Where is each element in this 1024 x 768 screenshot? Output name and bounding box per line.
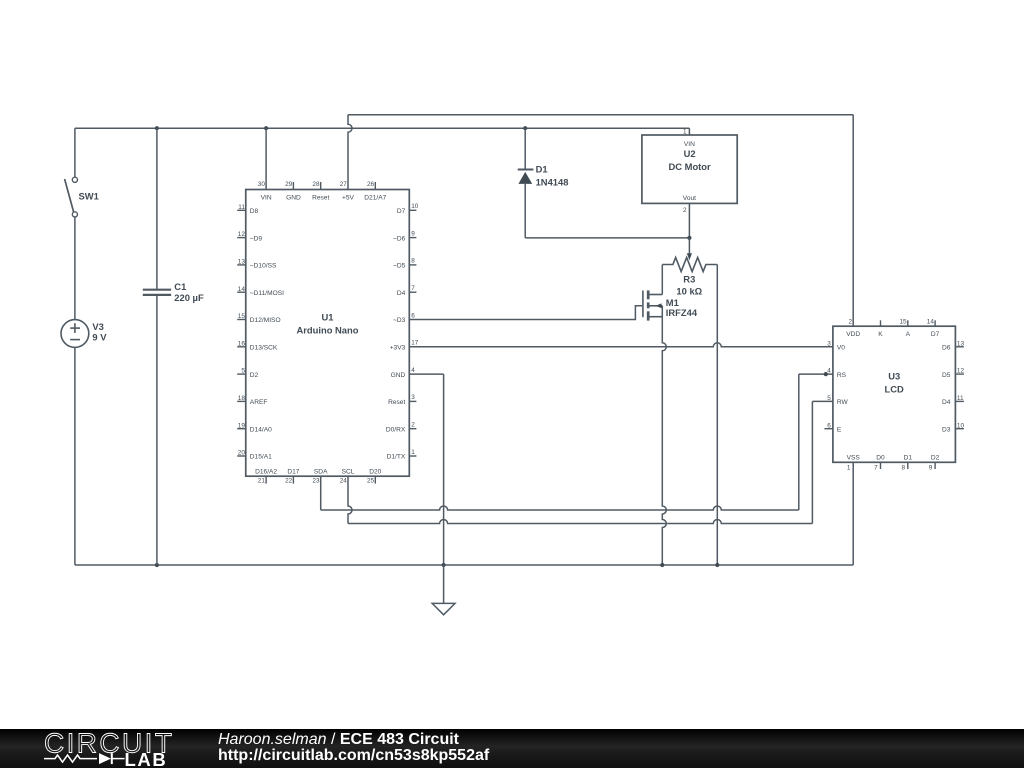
wire: U1 VIN pin 30 up to top rail: [265, 128, 267, 189]
pin 11 D8 of U1: [237, 204, 258, 215]
wire: C1 bottom lead: [156, 295, 158, 565]
pin 18 AREF of U1: [237, 395, 267, 406]
pin 14 D7 of U3: [927, 318, 940, 338]
svg-text:D6: D6: [942, 345, 951, 352]
svg-text:~D10/SS: ~D10/SS: [250, 263, 277, 270]
svg-text:D0: D0: [876, 454, 885, 461]
svg-text:D2: D2: [931, 454, 940, 461]
svg-text:D5: D5: [942, 372, 951, 379]
svg-text:GND: GND: [286, 195, 301, 202]
pin 10 D7 of U1: [397, 203, 419, 215]
svg-text:E: E: [837, 426, 842, 433]
wire: ground rail y=564.6: [75, 564, 853, 566]
svg-text:22: 22: [285, 478, 293, 485]
svg-text:D1/TX: D1/TX: [387, 454, 406, 461]
wire: U1 GND drop to ground rail: [443, 374, 445, 565]
svg-text:DC Motor: DC Motor: [669, 161, 712, 172]
pin 28 Reset of U1: [312, 181, 329, 201]
pin 1 VSS of U3: [847, 454, 861, 471]
wire: U1 GND pin 4 to drop: [409, 373, 443, 375]
svg-text:D14/A0: D14/A0: [250, 426, 272, 433]
pin 20 D15/A1 of U1: [237, 450, 272, 461]
svg-text:D7: D7: [397, 208, 406, 215]
svg-text:D4: D4: [942, 399, 951, 406]
svg-text:D13/SCK: D13/SCK: [250, 345, 278, 352]
svg-text:10 kΩ: 10 kΩ: [676, 285, 702, 296]
svg-text:30: 30: [258, 181, 266, 188]
pin 14 ~D11/MOSI of U1: [237, 286, 284, 297]
svg-text:GND: GND: [391, 372, 406, 379]
svg-text:~D6: ~D6: [393, 235, 406, 242]
svg-text:6: 6: [411, 312, 415, 319]
wire: top rail y=128: [75, 127, 690, 129]
svg-text:D20: D20: [369, 469, 381, 476]
pin 22 D17 of U1: [285, 469, 300, 485]
label SW1: [79, 191, 99, 202]
wire: left branch V3 minus down to ground rail: [74, 347, 76, 565]
svg-text:D15/A1: D15/A1: [250, 454, 272, 461]
svg-text:LAB: LAB: [125, 749, 168, 768]
wire: RS riser to LCD pin 4: [798, 374, 800, 510]
diode D1: [518, 170, 534, 184]
svg-text:IRFZ44: IRFZ44: [666, 307, 698, 318]
svg-text:27: 27: [340, 181, 348, 188]
svg-text:13: 13: [957, 340, 965, 347]
pin 10 D3 of U3: [942, 422, 964, 433]
pin 12 D5 of U3: [942, 368, 964, 379]
wire: SCL drop from U1 pin 24 with hop over SDA: [348, 476, 352, 523]
pin 12 ~D9 of U1: [237, 231, 262, 242]
svg-text:VIN: VIN: [261, 195, 272, 202]
svg-text:U3: U3: [888, 371, 900, 382]
svg-text:D0/RX: D0/RX: [386, 426, 406, 433]
pin 25 D20 of U1: [367, 469, 382, 485]
svg-text:R3: R3: [683, 274, 695, 285]
svg-text:15: 15: [238, 313, 246, 320]
pin 9 D2 of U3: [929, 454, 940, 471]
node: junction top rail / D1: [523, 126, 527, 130]
wire: SDA drop from U1 pin 23: [320, 476, 322, 510]
pin 6 ~D3 of U1: [393, 312, 415, 324]
label R3 value: [676, 274, 702, 297]
svg-text:2: 2: [411, 422, 415, 429]
svg-text:12: 12: [957, 368, 965, 375]
wire: SCL horizontal y=523.5 with hops: [348, 520, 812, 524]
transistor M1: [643, 290, 662, 320]
svg-text:SCL: SCL: [342, 469, 355, 476]
svg-text:C1: C1: [174, 281, 186, 292]
pin 8 D1 of U3: [901, 454, 912, 471]
svg-text:220 µF: 220 µF: [174, 292, 204, 303]
svg-text:LCD: LCD: [885, 384, 904, 395]
svg-text:28: 28: [312, 181, 320, 188]
svg-text:D8: D8: [250, 208, 259, 215]
svg-text:SDA: SDA: [314, 469, 328, 476]
pin 19 D14/A0 of U1: [237, 422, 272, 433]
svg-text:D3: D3: [942, 426, 951, 433]
wire: +3V3 to LCD V0 (y=346.8) with hop at R3 drop: [409, 343, 833, 347]
svg-text:D12/MISO: D12/MISO: [250, 317, 281, 324]
wire: D1 anode down: [524, 184, 526, 238]
pin 3 V0 of U3: [827, 340, 845, 351]
wire: RS horizontal into LCD: [799, 373, 833, 375]
wire: motor Vout pin 2 drop: [688, 203, 690, 237]
svg-text:V3: V3: [92, 321, 103, 332]
wire: SW1 to V3 (left branch middle): [74, 217, 76, 320]
wire: RW horizontal into LCD: [812, 400, 833, 402]
svg-text:5: 5: [827, 395, 831, 402]
IC U1 Arduino Nano box: [246, 190, 410, 477]
svg-text:7: 7: [411, 285, 415, 292]
pin 2 VDD of U3: [846, 318, 860, 338]
svg-text:24: 24: [340, 478, 348, 485]
wire: corner into DC motor VIN pin 1: [688, 128, 690, 135]
svg-text:RS: RS: [837, 372, 847, 379]
svg-text:A: A: [906, 331, 911, 338]
LCD U3 box: [833, 326, 956, 462]
svg-text:4: 4: [827, 368, 831, 375]
pin 6 E of U3: [824, 422, 842, 433]
wire: MOSFET gate wire from U1 ~D3 pin 6: [409, 306, 642, 320]
node: junction top rail / U1 VIN: [264, 126, 268, 130]
svg-text:Arduino Nano: Arduino Nano: [297, 325, 359, 336]
pin 3 Reset of U1: [388, 394, 416, 406]
wire: battery positive to top rail (left vertical upper): [74, 128, 76, 177]
svg-text:12: 12: [238, 231, 246, 238]
svg-text:10: 10: [957, 422, 965, 429]
pin 1 VIN of U2: [683, 128, 695, 148]
pin 17 +3V3 of U1: [390, 340, 419, 352]
wire: U1 +5V pin 27 riser with hop over top rail: [348, 115, 352, 190]
svg-text:9: 9: [929, 465, 933, 472]
node: junction ground rail / C1: [155, 563, 159, 567]
voltage source V3: [61, 320, 89, 348]
label U3 LCD: [885, 371, 904, 395]
svg-text:1: 1: [847, 465, 851, 472]
wire: LCD VDD pin 2 drop from +5V rail: [852, 115, 854, 327]
pin 5 RW of U3: [827, 395, 848, 406]
pin 11 D4 of U3: [942, 395, 964, 406]
svg-text:1: 1: [683, 128, 687, 135]
svg-text:U1: U1: [322, 311, 334, 322]
node: junction top rail / C1: [155, 126, 159, 130]
svg-text:26: 26: [367, 181, 375, 188]
pin 27 +5V of U1: [340, 181, 355, 201]
svg-text:D1: D1: [904, 454, 913, 461]
pin 8 ~D5 of U1: [393, 258, 416, 270]
potentiometer R3: [662, 253, 717, 271]
pin 2 Vout of U2: [683, 195, 696, 214]
wire: pot wiper lead: [688, 238, 690, 254]
svg-text:25: 25: [367, 478, 375, 485]
svg-text:~D11/MOSI: ~D11/MOSI: [250, 290, 284, 297]
svg-text:1: 1: [411, 449, 415, 456]
pin 21 D16/A2 of U1: [255, 469, 277, 485]
svg-text:18: 18: [238, 395, 246, 402]
svg-text:D1: D1: [536, 164, 548, 175]
svg-text:D7: D7: [931, 331, 940, 338]
pin 9 ~D6 of U1: [393, 230, 416, 242]
svg-text:D17: D17: [287, 469, 299, 476]
svg-text:Vout: Vout: [683, 195, 696, 202]
pin 16 K of U3: [878, 320, 883, 338]
svg-text:7: 7: [874, 465, 878, 472]
svg-text:5: 5: [241, 368, 245, 375]
svg-text:~D5: ~D5: [393, 263, 406, 270]
svg-text:AREF: AREF: [250, 399, 268, 406]
node: junction on RS wire: [824, 372, 828, 376]
label D1 value: [536, 164, 569, 188]
svg-text:D21/A7: D21/A7: [364, 195, 386, 202]
svg-text:9: 9: [411, 230, 415, 237]
node: junction ground rail / R3 right lead: [715, 563, 719, 567]
svg-text:3: 3: [827, 340, 831, 347]
wire: D1 bottom horizontal to motor Vout: [525, 237, 689, 239]
node: junction motor Vout / D1 / pot wiper: [687, 236, 691, 240]
pin 4 GND of U1: [391, 367, 416, 379]
pin 7 D4 of U1: [397, 285, 417, 297]
svg-text:11: 11: [238, 204, 245, 211]
svg-text:29: 29: [285, 181, 293, 188]
pin 13 D6 of U3: [942, 340, 964, 351]
svg-text:1N4148: 1N4148: [536, 176, 569, 187]
svg-text:13: 13: [238, 259, 246, 266]
svg-text:8: 8: [901, 465, 905, 472]
wire: C1 top lead: [156, 128, 158, 290]
svg-text:2: 2: [848, 318, 852, 325]
svg-text:21: 21: [258, 478, 266, 485]
svg-text:11: 11: [957, 395, 964, 402]
svg-text:23: 23: [312, 478, 320, 485]
pin 24 SCL of U1: [340, 469, 355, 485]
svg-text:14: 14: [238, 286, 246, 293]
svg-text:9 V: 9 V: [92, 332, 107, 343]
pin 16 D13/SCK of U1: [237, 340, 278, 351]
pin 15 D12/MISO of U1: [237, 313, 280, 324]
label V3 value: [92, 321, 107, 343]
pin 7 D0 of U3: [874, 454, 885, 471]
svg-text:V0: V0: [837, 345, 845, 352]
label U2 DC Motor: [669, 148, 712, 172]
pin 30 VIN of U1: [258, 181, 272, 201]
capacitor C1: [143, 290, 171, 295]
pin 1 D1/TX of U1: [387, 449, 417, 461]
svg-text:6: 6: [827, 422, 831, 429]
svg-text:~D3: ~D3: [393, 317, 406, 324]
svg-text:D2: D2: [250, 372, 259, 379]
svg-text:3: 3: [411, 394, 415, 401]
footer credit text: [218, 732, 489, 764]
svg-text:2: 2: [683, 207, 687, 214]
pin 29 GND of U1: [285, 181, 301, 201]
svg-text:4: 4: [411, 367, 415, 374]
node: junction ground rail / U1 GND drop: [442, 563, 446, 567]
wire: LCD VSS pin 1 drop to ground rail: [852, 462, 854, 565]
svg-text:D4: D4: [397, 290, 406, 297]
svg-text:20: 20: [238, 450, 246, 457]
svg-text:Reset: Reset: [388, 399, 405, 406]
pin 4 RS of U3: [827, 368, 846, 379]
svg-text:17: 17: [411, 340, 419, 347]
wire: SDA horizontal y=510 with hops: [321, 506, 799, 510]
wire: D1 cathode up to top rail: [524, 128, 526, 169]
svg-text:Reset: Reset: [312, 195, 329, 202]
label C1 value: [174, 281, 204, 303]
wire: R3 left lead down to MOSFET drain: [661, 265, 663, 295]
svg-text:16: 16: [238, 340, 246, 347]
node: junction ground rail / MOSFET source: [660, 563, 664, 567]
ground: [432, 565, 455, 615]
svg-text:+3V3: +3V3: [390, 345, 406, 352]
wire: +5V rail y=114.7 from U1 pin 27 to LCD VDD: [348, 114, 853, 116]
pin 15 A of U3: [899, 318, 910, 338]
svg-text:14: 14: [927, 318, 935, 325]
svg-text:U2: U2: [684, 148, 696, 159]
wire: R3 right lead drop to ground rail: [716, 265, 718, 566]
switch SW1: [65, 177, 78, 217]
svg-text:D16/A2: D16/A2: [255, 469, 277, 476]
svg-text:15: 15: [899, 318, 907, 325]
pin 23 SDA of U1: [312, 469, 328, 485]
pin 26 D21/A7 of U1: [364, 181, 386, 201]
svg-text:VIN: VIN: [684, 141, 695, 148]
label U1 Arduino Nano: [297, 311, 359, 335]
label M1 value: [666, 297, 698, 318]
wire: RW riser to LCD pin 5: [811, 401, 813, 523]
pin 2 D0/RX of U1: [386, 422, 417, 434]
pin 13 ~D10/SS of U1: [237, 259, 277, 270]
svg-text:10: 10: [411, 203, 419, 210]
footer bar: [0, 729, 1024, 768]
svg-text:RW: RW: [837, 399, 849, 406]
DC motor U2 box: [642, 135, 737, 203]
wire: MOSFET source/body drop to ground rail with hops: [662, 306, 666, 565]
svg-text:K: K: [878, 331, 883, 338]
svg-text:VDD: VDD: [846, 331, 860, 338]
svg-text:19: 19: [238, 422, 246, 429]
svg-text:~D9: ~D9: [250, 235, 263, 242]
svg-text:SW1: SW1: [79, 191, 99, 202]
svg-text:VSS: VSS: [847, 454, 861, 461]
svg-text:+5V: +5V: [342, 195, 355, 202]
pin 5 D2 of U1: [237, 368, 258, 379]
CircuitLab logo: [38, 729, 258, 768]
svg-text:8: 8: [411, 258, 415, 265]
